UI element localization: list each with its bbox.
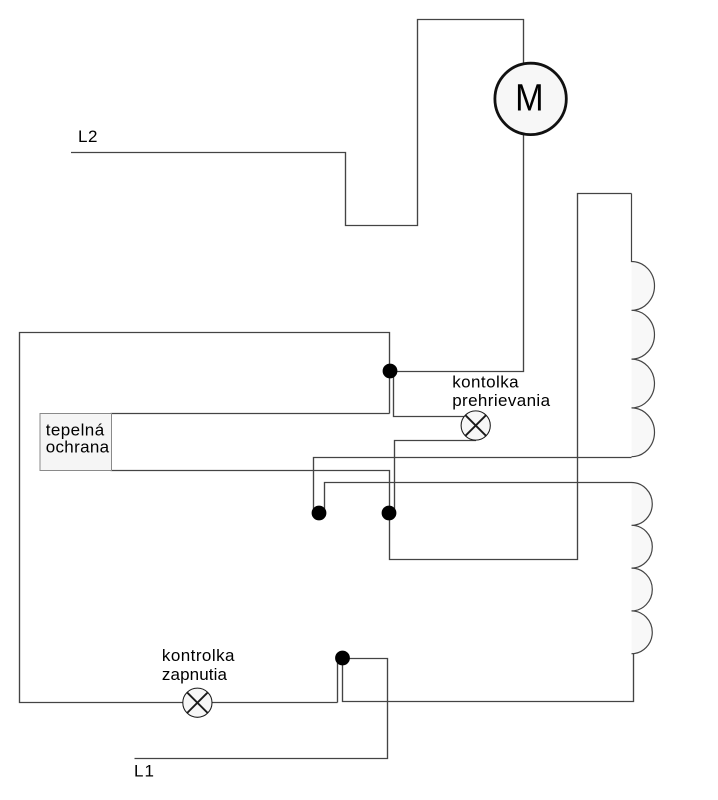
svg-text:kontrolka: kontrolka [162, 646, 235, 665]
indicator lamp H2 kontolka prehrievania [461, 411, 490, 440]
wire coil E2 bottom to J4 [343, 654, 634, 702]
motor M [495, 63, 566, 134]
svg-text:L2: L2 [78, 127, 98, 146]
wire J4 down-left to lamp H1 row [337, 658, 339, 703]
node J3 junction thermal/lamp/coil [382, 506, 397, 521]
svg-text:M: M [515, 76, 543, 119]
node J1 junction motor/thermal [383, 364, 398, 379]
wire branch J1 to lamp H2 left [394, 372, 465, 417]
thermal protection box tepelna ochrana [40, 414, 112, 471]
wire J2 up to coil E2 top [325, 483, 632, 514]
node J4 junction L1/lamp/coil2 [335, 651, 350, 666]
wire big left loop from J1 up over to left side down to lamp H1 row [20, 333, 390, 703]
wire tepelna ochrana top line [111, 413, 390, 415]
wire tepelna ochrana bottom line through J3 down and over to coil E1 top [111, 194, 632, 560]
heater coil E1 (upper) [632, 194, 655, 457]
wire L2 feed to motor and down to node J1 [71, 20, 524, 372]
svg-text:L1: L1 [134, 761, 155, 780]
wire L1 feed [135, 659, 388, 759]
svg-text:kontolka: kontolka [452, 373, 519, 392]
wire coil E1 bottom to J2 [314, 458, 632, 514]
wire lamp H2 bottom to J3 [395, 441, 477, 514]
node J2 junction coil1-coil2 [312, 506, 327, 521]
svg-text:prehrievania: prehrievania [452, 391, 550, 410]
svg-text:ochrana: ochrana [46, 438, 110, 457]
heater coil E2 (lower) [632, 483, 653, 654]
svg-text:zapnutia: zapnutia [162, 665, 228, 684]
indicator lamp H1 kontrolka zapnutia [183, 688, 212, 717]
